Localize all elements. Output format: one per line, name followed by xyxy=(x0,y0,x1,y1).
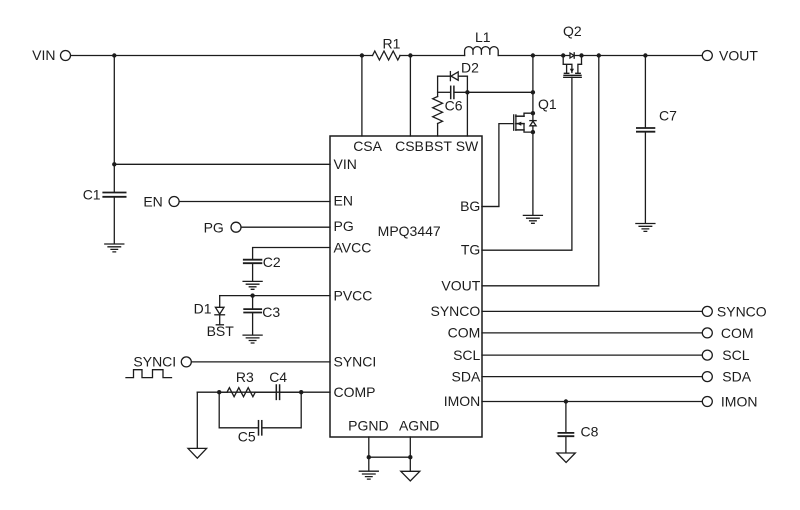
capacitor C6 plates xyxy=(451,86,454,98)
ground earth under C2 xyxy=(243,281,262,289)
junction dot rail C7 xyxy=(643,53,647,57)
wire AVCC pin to C2 xyxy=(253,248,330,259)
wire PG pin xyxy=(242,226,331,228)
svg-text:AGND: AGND xyxy=(399,417,439,433)
wire PGND pin xyxy=(368,437,370,471)
junction dot SW node Q1 drain top xyxy=(531,90,535,94)
wire rail R1 to L1 xyxy=(400,55,465,57)
svg-text:C7: C7 xyxy=(659,107,677,123)
transistor Q2 mosfet xyxy=(563,56,581,78)
capacitor C1 branch wire lower xyxy=(113,198,115,244)
wire BST left vertical xyxy=(437,76,439,96)
wire IMON pin xyxy=(482,401,702,403)
svg-text:C2: C2 xyxy=(263,254,281,270)
svg-text:D1: D1 xyxy=(194,300,212,316)
wire SYNCO pin xyxy=(482,310,702,312)
wire node to R3 xyxy=(219,391,227,393)
svg-text:AVCC: AVCC xyxy=(334,240,372,256)
junction dot rail VOUT riser xyxy=(597,53,601,57)
svg-text:CSA: CSA xyxy=(353,138,382,154)
wire resistor to BST pin xyxy=(437,124,439,137)
svg-text:SCL: SCL xyxy=(453,347,480,363)
sync square wave symbol xyxy=(126,370,172,378)
svg-text:SCL: SCL xyxy=(722,347,749,363)
capacitor C8 wire upper xyxy=(565,402,567,433)
wire AGND pin xyxy=(409,437,411,471)
terminal SYNCI xyxy=(181,357,191,367)
transistor Q1 mosfet body xyxy=(514,113,533,132)
wire D2 top link xyxy=(438,75,468,77)
wire Q2 gate to TG pin xyxy=(482,77,572,250)
ground earth under C7 xyxy=(636,224,655,232)
svg-text:COM: COM xyxy=(448,325,481,341)
wire Q1 source to ground xyxy=(532,132,534,215)
capacitor C7 branch wire upper xyxy=(644,56,646,128)
svg-text:SYNCI: SYNCI xyxy=(133,353,176,369)
svg-text:Q2: Q2 xyxy=(563,23,582,39)
capacitor C1 branch wire upper xyxy=(113,56,115,192)
junction dot COMP left xyxy=(217,390,221,394)
wire Q1 drain vertical xyxy=(532,56,534,114)
svg-text:COM: COM xyxy=(721,325,754,341)
wire top rail VIN segment xyxy=(71,55,373,57)
wire C5 branch right xyxy=(263,392,302,428)
wire SYNCI pin xyxy=(192,361,330,363)
wire CSB vertical xyxy=(409,56,411,137)
terminal SYNCO xyxy=(702,306,712,316)
ground signal triangle under AGND xyxy=(401,471,420,481)
junction dot rail C1 xyxy=(112,53,116,57)
wire EN pin xyxy=(180,201,330,203)
junction dot SW node C6 xyxy=(465,90,469,94)
junction dot PVCC C3 xyxy=(250,293,254,297)
wire SDA pin xyxy=(482,376,702,378)
svg-text:VIN: VIN xyxy=(32,47,55,63)
junction dot AGND link xyxy=(408,455,412,459)
junction dot rail CSA xyxy=(360,53,364,57)
capacitor C4 plates xyxy=(276,385,279,399)
svg-text:C1: C1 xyxy=(83,187,101,203)
svg-text:PG: PG xyxy=(334,218,354,234)
junction dot IMON C8 xyxy=(564,399,568,403)
diode D1 xyxy=(215,296,225,325)
svg-text:SYNCO: SYNCO xyxy=(717,303,767,319)
svg-text:Q1: Q1 xyxy=(538,96,557,112)
ground earth under C3 xyxy=(243,335,262,343)
capacitor C2 wire lower xyxy=(252,264,254,281)
terminal VIN xyxy=(61,51,71,61)
svg-text:VOUT: VOUT xyxy=(441,278,480,294)
svg-text:C6: C6 xyxy=(445,98,463,114)
svg-text:SYNCI: SYNCI xyxy=(334,354,377,370)
svg-text:COMP: COMP xyxy=(334,384,376,400)
junction dot VIN pin C1 xyxy=(112,162,116,166)
wire SCL pin xyxy=(482,354,702,356)
wire VOUT pin riser xyxy=(482,56,599,286)
svg-text:SW: SW xyxy=(456,138,479,154)
wire CSA vertical xyxy=(361,56,363,137)
resistor in BST branch xyxy=(433,97,443,124)
svg-text:D2: D2 xyxy=(461,60,479,76)
wire COMP pin xyxy=(197,391,330,393)
terminal SDA xyxy=(702,372,712,382)
terminal EN xyxy=(169,197,179,207)
junction dot rail Q1 drain xyxy=(531,53,535,57)
wire rail L1 to VOUT terminal xyxy=(498,55,702,57)
wire COM pin xyxy=(482,332,702,334)
svg-text:VOUT: VOUT xyxy=(719,47,758,63)
wire VIN pin xyxy=(114,163,330,165)
svg-text:BST: BST xyxy=(425,138,453,154)
svg-text:C8: C8 xyxy=(581,424,599,440)
capacitor C8 plates xyxy=(558,433,573,436)
IC U1 MPQ3447 body xyxy=(330,136,482,437)
capacitor C8 wire lower xyxy=(565,437,567,453)
wire R3 to C4 xyxy=(255,391,275,393)
junction dot Q1 drain xyxy=(531,111,535,115)
capacitor C3 wire lower xyxy=(252,313,254,335)
svg-text:PGND: PGND xyxy=(348,417,388,433)
terminal COM xyxy=(702,328,712,338)
svg-text:L1: L1 xyxy=(475,29,491,45)
svg-text:PVCC: PVCC xyxy=(334,288,373,304)
wire SW vertical xyxy=(466,76,468,136)
svg-text:R3: R3 xyxy=(236,369,254,385)
svg-text:BG: BG xyxy=(460,198,480,214)
wire PVCC pin xyxy=(220,295,330,297)
wire C6 to SW node xyxy=(455,91,533,93)
capacitor C1 plates xyxy=(103,193,125,197)
capacitor C7 branch wire lower xyxy=(644,133,646,224)
wire C4 to COMP xyxy=(280,391,301,393)
junction dot Q1 source xyxy=(531,130,535,134)
svg-text:TG: TG xyxy=(461,242,480,258)
wire C6 left stub xyxy=(438,91,450,93)
svg-text:CSB: CSB xyxy=(395,138,424,154)
ground earth under C1 xyxy=(105,244,124,252)
transistor Q2 body diode inline xyxy=(570,53,574,58)
ground signal triangle under C8 xyxy=(557,453,575,463)
svg-text:IMON: IMON xyxy=(444,393,481,409)
resistor R1 xyxy=(373,51,401,60)
terminal VOUT xyxy=(702,51,712,61)
wire C5 branch left xyxy=(219,392,258,428)
svg-text:SDA: SDA xyxy=(722,369,751,385)
svg-text:IMON: IMON xyxy=(721,394,758,410)
transistor Q1 body diode xyxy=(530,121,536,126)
svg-text:SDA: SDA xyxy=(452,368,481,384)
svg-text:MPQ3447: MPQ3447 xyxy=(378,223,441,239)
svg-text:C5: C5 xyxy=(238,428,256,444)
svg-text:EN: EN xyxy=(334,193,353,209)
svg-text:BST: BST xyxy=(207,323,235,339)
ground earth under PGND xyxy=(359,471,378,479)
svg-text:EN: EN xyxy=(143,193,162,209)
wire PGND AGND link xyxy=(369,456,411,458)
junction dot rail CSB xyxy=(408,53,412,57)
capacitor C2 plates xyxy=(244,260,262,264)
svg-text:PG: PG xyxy=(204,219,224,235)
ground signal triangle at COMP xyxy=(188,448,207,458)
wire Q1 gate to BG pin xyxy=(482,124,514,207)
junction dot rail Q2 left xyxy=(561,53,565,57)
terminal SCL xyxy=(702,350,712,360)
junction dot COMP right xyxy=(299,390,303,394)
capacitor C3 plates xyxy=(244,309,261,312)
wire COMP ground branch xyxy=(196,392,198,448)
svg-text:C4: C4 xyxy=(269,369,287,385)
junction dot PGND link xyxy=(367,455,371,459)
wire BG pin xyxy=(482,206,499,208)
capacitor C3 wire upper xyxy=(252,296,254,309)
terminal IMON xyxy=(702,397,712,407)
svg-text:SYNCO: SYNCO xyxy=(431,303,481,319)
svg-text:C3: C3 xyxy=(262,304,280,320)
junction dot rail Q2 right xyxy=(579,53,583,57)
diode D2 xyxy=(450,72,458,81)
wire Q1 channel vertical xyxy=(532,113,534,132)
svg-text:R1: R1 xyxy=(383,35,401,51)
terminal PG xyxy=(231,222,241,232)
capacitor C5 plates xyxy=(259,421,262,435)
capacitor C7 plates xyxy=(637,128,655,132)
svg-text:VIN: VIN xyxy=(334,156,357,172)
resistor R3 xyxy=(227,388,255,397)
inductor L1 xyxy=(465,47,499,56)
ground earth under Q1 xyxy=(523,215,542,223)
